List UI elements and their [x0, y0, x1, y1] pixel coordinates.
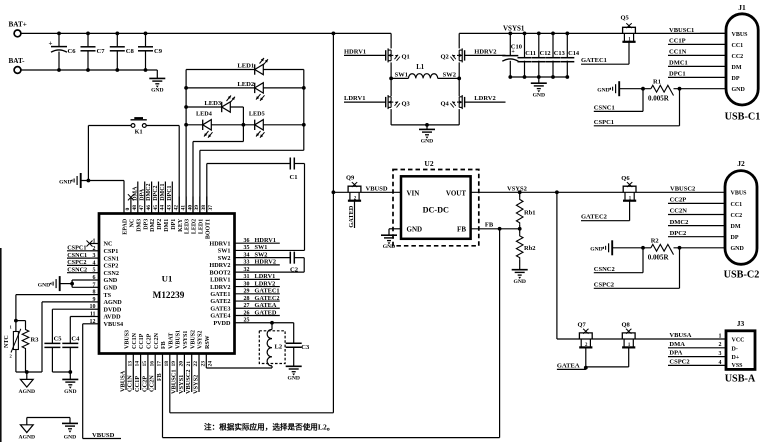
pin 11 AVDD	[90, 312, 121, 321]
svg-text:J2: J2	[737, 159, 745, 168]
svg-text:3: 3	[719, 351, 722, 357]
svg-text:VBUS4: VBUS4	[104, 321, 124, 328]
svg-text:15: 15	[142, 361, 148, 367]
svg-text:DP: DP	[732, 76, 740, 82]
ground GND battery input	[149, 70, 165, 93]
svg-text:USB-A: USB-A	[725, 373, 756, 384]
svg-text:DM2: DM2	[150, 219, 156, 232]
svg-text:K1: K1	[135, 129, 143, 136]
pin 31 LDRV1	[210, 273, 280, 283]
inductor L2 (optional, dashed)	[259, 323, 285, 368]
pin 48 NC (no connect)	[128, 194, 138, 227]
ground GND tie	[62, 423, 78, 440]
transistor Q6	[621, 175, 636, 221]
svg-text:20: 20	[179, 361, 185, 367]
svg-text:GATE4: GATE4	[210, 313, 230, 320]
node HDRV1	[344, 49, 386, 56]
transistor Q3	[386, 95, 411, 125]
wire C5/C4 ground rail	[52, 370, 72, 379]
svg-text:22: 22	[193, 361, 199, 367]
svg-text:J1: J1	[738, 3, 746, 12]
svg-text:L2: L2	[275, 344, 283, 351]
capacitor C4	[62, 335, 80, 372]
capacitor C3	[286, 323, 310, 366]
svg-text:DM: DM	[732, 65, 742, 71]
node CSPC2 at U1	[67, 259, 90, 266]
svg-text:VBUSC2: VBUSC2	[670, 185, 695, 192]
svg-text:GND: GND	[590, 247, 602, 253]
svg-text:11: 11	[90, 312, 96, 318]
svg-text:AVDD: AVDD	[104, 314, 122, 321]
wire VSYS1 cap ground rail	[510, 77, 567, 83]
svg-text:16: 16	[149, 361, 155, 367]
pin 37 BOOT1 stub	[205, 197, 214, 240]
capacitor C12	[532, 32, 551, 79]
svg-text:R2: R2	[651, 237, 659, 244]
svg-text:LED2: LED2	[192, 219, 198, 234]
wire VSYS1 rail	[459, 32, 726, 34]
svg-text:C10: C10	[511, 44, 522, 51]
svg-text:VSYS1: VSYS1	[178, 375, 185, 394]
node DMC1	[668, 60, 726, 67]
wire BAT+ rail	[21, 32, 391, 34]
svg-text:EPAD: EPAD	[123, 218, 129, 235]
svg-text:Q8: Q8	[622, 321, 631, 328]
pin 16 CC2P	[141, 333, 155, 392]
svg-text:CSNC2: CSNC2	[67, 267, 87, 274]
svg-text:8: 8	[93, 290, 96, 296]
svg-text:GATE1: GATE1	[210, 291, 230, 298]
ground GND for K1 / EPAD	[59, 173, 124, 188]
svg-text:Rb2: Rb2	[524, 245, 536, 252]
svg-text:C8: C8	[126, 48, 135, 55]
svg-text:AGND: AGND	[19, 434, 35, 440]
svg-text:Q4: Q4	[440, 100, 449, 107]
pin 44 DP2 net DPC2	[153, 182, 166, 230]
capacitor C14	[560, 32, 580, 79]
ground GND sense R2	[590, 240, 612, 255]
svg-text:CSNC1: CSNC1	[67, 252, 87, 259]
svg-text:DM: DM	[731, 224, 741, 230]
svg-text:19: 19	[171, 361, 177, 367]
pin 27 GATE3	[210, 302, 279, 312]
svg-text:L1: L1	[416, 64, 425, 71]
svg-text:CC1N: CC1N	[669, 49, 687, 56]
svg-text:VBUSC2: VBUSC2	[185, 370, 192, 395]
svg-text:CC2N: CC2N	[154, 332, 160, 349]
pin 6 GND	[90, 275, 118, 284]
svg-text:GND: GND	[533, 93, 545, 99]
svg-text:VBUSD: VBUSD	[366, 185, 388, 192]
LED LED2	[186, 81, 304, 101]
pin 14 CC1N	[127, 332, 141, 392]
svg-text:VBUS: VBUS	[732, 32, 749, 38]
pin 28 GATE2	[210, 295, 279, 305]
svg-text:Q7: Q7	[578, 321, 587, 328]
svg-text:DMC2: DMC2	[146, 183, 152, 200]
svg-text:RSW: RSW	[205, 335, 211, 349]
svg-text:FB: FB	[485, 222, 494, 229]
svg-text:DPC1: DPC1	[669, 71, 686, 78]
ground GND sense R1	[597, 81, 619, 96]
wire RSW to L2	[206, 367, 272, 369]
wire NTC/R3 bottoms to AGND	[16, 350, 42, 380]
svg-text:LED5: LED5	[249, 111, 265, 118]
pin 35 SW1	[218, 244, 305, 254]
svg-text:DP1: DP1	[171, 219, 177, 230]
node GATEC2	[581, 214, 630, 221]
svg-text:GATE2: GATE2	[210, 298, 230, 305]
svg-text:GND: GND	[38, 282, 50, 288]
svg-text:5: 5	[93, 268, 96, 274]
svg-text:12: 12	[90, 319, 96, 325]
svg-text:D-: D-	[732, 346, 738, 352]
svg-text:FB: FB	[161, 341, 167, 349]
transistor Q1	[386, 33, 410, 62]
svg-text:LED3: LED3	[204, 100, 222, 107]
svg-text:BAT-: BAT-	[9, 57, 26, 65]
svg-text:DM3: DM3	[136, 219, 142, 232]
pin 32 BOOT2	[210, 267, 305, 276]
pin 40 LED3 stub	[185, 197, 194, 235]
svg-text:U1: U1	[162, 274, 173, 284]
wire J1 VBUS	[700, 32, 726, 34]
svg-text:VSYS1: VSYS1	[503, 24, 525, 32]
svg-text:C3: C3	[301, 344, 310, 351]
svg-text:CSPC2: CSPC2	[67, 259, 86, 266]
node CSPC2	[594, 248, 680, 289]
wire LED2 pin to LED4/5 midpoint	[193, 125, 243, 214]
svg-text:SW2: SW2	[218, 255, 231, 262]
svg-text:C1: C1	[289, 174, 297, 181]
LED LED1	[186, 58, 304, 75]
svg-text:GND: GND	[597, 87, 609, 93]
svg-text:CC1: CC1	[731, 202, 743, 208]
thermistor NTC	[4, 324, 21, 358]
node CSNC1	[594, 89, 643, 112]
capacitor C7	[81, 32, 106, 72]
svg-text:DPC1: DPC1	[167, 185, 173, 200]
wire TS to NTC network	[14, 295, 90, 332]
svg-text:VBUS3: VBUS3	[125, 330, 131, 349]
node VBUSD at U2 input	[366, 185, 388, 192]
svg-text:CSP2: CSP2	[104, 263, 119, 270]
pin 19 VBAT	[168, 333, 177, 413]
svg-text:VSYS2: VSYS2	[192, 375, 199, 394]
pin 0 EPAD	[123, 181, 132, 235]
svg-text:2: 2	[719, 342, 722, 348]
svg-text:VSYS1: VSYS1	[183, 331, 189, 349]
node CSPC1 at U1	[67, 245, 90, 252]
connector J3 USB-A	[725, 319, 756, 384]
IC U1 M12239 body	[99, 214, 235, 354]
svg-text:CC2P: CC2P	[147, 333, 153, 349]
svg-text:C14: C14	[568, 50, 580, 57]
wire BAT- rail	[21, 69, 157, 71]
resistor Rb1	[516, 192, 535, 234]
ground GND U1 pins 6,7	[38, 276, 60, 291]
svg-text:VBAT: VBAT	[168, 333, 174, 349]
node DMC2	[668, 219, 725, 226]
svg-text:C7: C7	[97, 48, 106, 55]
svg-text:LDRV1: LDRV1	[210, 277, 230, 284]
svg-text:CSNC2: CSNC2	[594, 266, 615, 273]
svg-text:LED3: LED3	[185, 219, 191, 234]
svg-text:CC2N: CC2N	[670, 208, 688, 215]
svg-text:CSN1: CSN1	[104, 255, 119, 262]
svg-text:GATEC1: GATEC1	[581, 57, 607, 64]
pin 1 NC	[87, 239, 113, 248]
svg-text:GND: GND	[104, 277, 118, 284]
svg-text:DPC2: DPC2	[153, 185, 159, 200]
wire PVDD row	[235, 321, 294, 325]
svg-text:DP: DP	[731, 235, 739, 241]
pin 38 LED1 stub	[199, 197, 208, 235]
switch K1 push button	[88, 117, 179, 135]
svg-text:GND: GND	[731, 246, 745, 252]
wire U1 GND pins 6,7 tie	[60, 280, 90, 287]
wire K1 left to ground	[87, 126, 89, 181]
pin 1 J3	[719, 333, 722, 339]
pin 30 LDRV2	[210, 280, 280, 290]
pin 25 PVDD	[213, 318, 249, 327]
svg-text:GND: GND	[104, 285, 118, 292]
svg-text:GND: GND	[64, 389, 76, 395]
capacitor C9	[138, 32, 163, 72]
svg-text:VSYS2: VSYS2	[507, 185, 527, 192]
node CSPC2 at USB-A	[668, 359, 726, 366]
svg-text:CSPC1: CSPC1	[594, 119, 614, 126]
inductor L1	[409, 64, 438, 78]
svg-text:13: 13	[127, 361, 133, 367]
ground GND Rb2	[512, 270, 528, 285]
svg-text:GND: GND	[287, 376, 299, 382]
node CSNC1 at U1	[67, 252, 90, 259]
pin 33 HDRV2	[209, 259, 279, 269]
svg-text:+: +	[49, 40, 53, 48]
node CC1N	[668, 49, 726, 56]
node DMA	[668, 341, 726, 348]
svg-text:24: 24	[208, 361, 214, 367]
svg-text:CSN2: CSN2	[104, 270, 119, 277]
svg-text:10: 10	[90, 304, 96, 310]
svg-text:TS: TS	[104, 292, 112, 299]
node CSNC2 at U1	[67, 267, 90, 274]
svg-text:DPA: DPA	[669, 350, 682, 357]
svg-text:Q1: Q1	[402, 54, 410, 61]
svg-text:18: 18	[164, 361, 170, 367]
node VBUSD	[92, 432, 115, 439]
svg-text:VOUT: VOUT	[446, 190, 466, 198]
pin 18 FB	[157, 341, 170, 437]
svg-text:DMC2: DMC2	[670, 219, 689, 226]
capacitor C11	[518, 32, 536, 79]
svg-text:CSPC2: CSPC2	[594, 282, 614, 289]
svg-text:Rb1: Rb1	[524, 209, 536, 216]
pin 4 CSP2	[90, 260, 118, 269]
node VBUSA	[669, 332, 691, 339]
wire LED common left rail (LED3 net)	[184, 70, 188, 214]
svg-text:CC2N: CC2N	[149, 375, 156, 392]
wire AVDD to C4	[70, 317, 90, 344]
pin 20 VBUS1	[171, 330, 185, 394]
svg-text:37: 37	[208, 205, 214, 211]
capacitor C2	[235, 252, 305, 274]
wire DVDD to C5	[52, 309, 90, 343]
pin 22 VBUS2	[185, 330, 199, 394]
capacitor C1	[207, 158, 305, 214]
svg-text:VBUS1: VBUS1	[176, 330, 182, 349]
svg-text:DMA: DMA	[669, 341, 685, 348]
svg-text:BOOT1: BOOT1	[205, 219, 211, 239]
frame edge left	[0, 248, 2, 442]
svg-text:USB-C1: USB-C1	[725, 112, 760, 123]
svg-text:VBUSA: VBUSA	[119, 370, 126, 392]
svg-text:NTC: NTC	[4, 335, 10, 348]
pin 45 DM2 net DMC2	[146, 182, 159, 232]
capacitor C8	[110, 32, 135, 72]
svg-text:LDRV1: LDRV1	[344, 95, 365, 102]
node DPC2	[668, 230, 725, 237]
svg-text:DC-DC: DC-DC	[423, 206, 449, 215]
ground AGND analog	[19, 379, 35, 394]
svg-text:DMC1: DMC1	[669, 60, 688, 67]
transistor Q5	[621, 15, 636, 64]
svg-text:7: 7	[93, 282, 96, 288]
svg-text:FB: FB	[457, 226, 466, 234]
svg-text:Q3: Q3	[402, 100, 411, 107]
node DPC1	[668, 71, 726, 78]
node LDRV2	[464, 95, 505, 102]
svg-text:U2: U2	[424, 159, 433, 168]
wire battery positive rail vertical	[332, 32, 336, 413]
svg-text:CC1P: CC1P	[669, 38, 686, 45]
svg-text:VBUSA: VBUSA	[669, 332, 691, 339]
svg-text:HDRV1: HDRV1	[344, 49, 366, 56]
connector BAT+ terminal	[9, 21, 27, 37]
svg-text:C12: C12	[540, 50, 551, 57]
svg-text:SW1: SW1	[395, 71, 408, 78]
LED LED4	[186, 111, 243, 138]
node CSNC2	[594, 248, 643, 273]
wire VBUS4 to VBUSD label	[83, 324, 121, 439]
svg-text:Q5: Q5	[621, 15, 630, 22]
svg-text:DP2: DP2	[157, 219, 163, 230]
svg-text:LDRV2: LDRV2	[474, 95, 495, 102]
transistor Q2	[440, 33, 464, 62]
note text	[204, 422, 334, 432]
capacitor C6	[49, 32, 77, 72]
svg-text:AGND: AGND	[104, 299, 123, 306]
svg-text:VSS: VSS	[732, 363, 744, 369]
svg-text:LED2: LED2	[237, 81, 255, 88]
svg-text:LDRV2: LDRV2	[210, 284, 230, 291]
svg-text:SW1: SW1	[218, 248, 231, 255]
pin 3 CSN1	[90, 253, 119, 262]
svg-text:J3: J3	[737, 319, 745, 328]
svg-text:DPA: DPA	[139, 188, 145, 201]
pin 23 VSYS2	[192, 331, 206, 394]
pin 9 AGND	[90, 297, 122, 306]
node CC1P	[668, 38, 726, 45]
svg-text:CC1P: CC1P	[134, 376, 141, 392]
node GATEC1	[581, 57, 629, 64]
svg-text:GATE3: GATE3	[210, 305, 230, 312]
svg-text:Q9: Q9	[346, 175, 355, 182]
svg-text:VIN: VIN	[407, 190, 420, 198]
svg-text:GND: GND	[383, 244, 395, 250]
resistor R2 0.005R	[613, 237, 725, 261]
pin 39 LED2 stub	[192, 197, 201, 235]
ground GND U2	[381, 229, 401, 250]
svg-text:GATED: GATED	[348, 205, 355, 227]
svg-text:LED1: LED1	[199, 219, 205, 234]
svg-text:4: 4	[93, 260, 96, 266]
node HDRV2	[464, 49, 505, 56]
svg-text:CC2: CC2	[731, 213, 743, 219]
svg-text:HDRV2: HDRV2	[474, 49, 496, 56]
svg-text:R1: R1	[653, 79, 661, 86]
svg-text:2: 2	[93, 246, 96, 252]
svg-text:PVDD: PVDD	[213, 320, 231, 327]
svg-text:9: 9	[93, 297, 96, 303]
svg-text:14: 14	[135, 361, 141, 367]
svg-text:CSPC2: CSPC2	[669, 359, 689, 366]
svg-text:C5: C5	[54, 335, 63, 342]
svg-text:1: 1	[719, 333, 722, 339]
pin 8 TS	[90, 290, 112, 299]
transistor Q7	[578, 321, 593, 369]
svg-text:HDRV2: HDRV2	[209, 262, 230, 269]
resistor Rb2	[516, 234, 535, 270]
LED LED3	[186, 96, 243, 125]
svg-text:23: 23	[200, 361, 206, 367]
wire AGND pin to analog ground rail	[42, 302, 90, 372]
svg-text:CC2P: CC2P	[141, 376, 148, 392]
ground GND digital caps	[62, 379, 78, 394]
node DPA	[668, 350, 726, 357]
svg-text:21: 21	[186, 361, 192, 367]
wire C1 to SW1	[304, 164, 306, 251]
IC U2 DC-DC module	[393, 159, 479, 246]
pin 29 GATE1	[210, 288, 279, 298]
svg-text:GATEC2: GATEC2	[581, 214, 607, 221]
svg-text:CC2: CC2	[732, 54, 744, 60]
node LDRV1	[344, 95, 386, 102]
wire KEY pin riser	[178, 126, 180, 214]
pin 47 DM3 net DMA	[132, 182, 145, 232]
pin 46 DP3 net DPA	[139, 182, 152, 230]
svg-text:Q2: Q2	[440, 54, 448, 61]
svg-text:M12239: M12239	[153, 290, 185, 300]
svg-text:DVDD: DVDD	[104, 306, 122, 313]
svg-text:VBUSC1: VBUSC1	[171, 370, 178, 395]
svg-text:DM1: DM1	[164, 219, 170, 232]
wire power stage source rail	[391, 123, 459, 129]
pin 34 SW2	[218, 251, 268, 261]
svg-text:17: 17	[157, 361, 163, 367]
pin 15 CC1P	[134, 333, 148, 392]
svg-text:6: 6	[93, 275, 96, 281]
svg-text:FB: FB	[157, 373, 163, 381]
svg-text:3: 3	[93, 253, 96, 259]
pin 7 GND	[90, 282, 118, 291]
svg-text:DMA: DMA	[132, 186, 138, 201]
svg-text:CC2P: CC2P	[670, 197, 687, 204]
svg-text:C4: C4	[71, 335, 80, 342]
wire VOUT / VSYS2	[471, 190, 726, 194]
node VBUSC1	[669, 27, 694, 34]
